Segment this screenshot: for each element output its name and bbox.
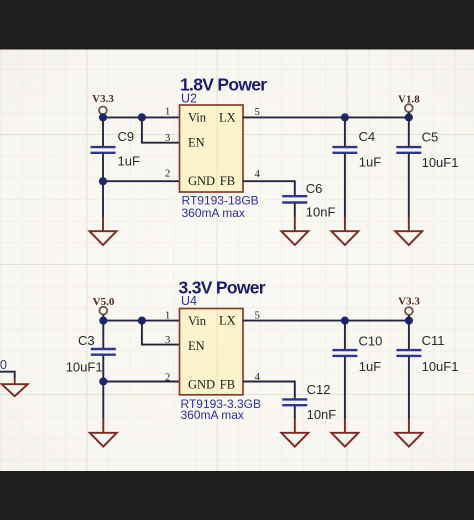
wire EN tap down 2 [142, 321, 180, 345]
wire EN tap down [142, 117, 180, 142]
wire V5.0 to U4 Vin [103, 320, 179, 322]
ground under C9 [90, 217, 117, 245]
wire V3.3 to U2 Vin [103, 116, 180, 118]
ground under C3 [90, 418, 117, 446]
ground under C10 [331, 418, 358, 446]
ground under C5 [395, 217, 422, 245]
capacitor C12 [282, 399, 307, 418]
power port V3.3 [92, 93, 114, 117]
regulator U4 [180, 294, 244, 395]
power port V1.8 [398, 93, 420, 117]
wire left edge stub [0, 372, 15, 378]
ground under C11 [395, 418, 422, 446]
bottom letterbox bar [0, 471, 474, 520]
wire GND row to U2 [103, 180, 180, 182]
junction at V3.3 [99, 113, 107, 121]
power port V5.0 [93, 296, 115, 321]
wire FB to C6 [243, 181, 295, 195]
wire LX to V1.8 [243, 116, 409, 118]
capacitor C5 [396, 117, 421, 217]
capacitor C11 [396, 321, 421, 419]
wire C9 to ground [102, 181, 104, 217]
ground under C4 [331, 217, 358, 245]
junction at C10 [341, 317, 349, 325]
top letterbox bar [0, 0, 474, 50]
capacitor C9 [91, 117, 116, 181]
capacitor C10 [332, 321, 357, 419]
ground under C6 [281, 217, 308, 245]
junction at C4 [341, 113, 349, 121]
power port V3.3 out [398, 296, 420, 321]
capacitor C4 [332, 117, 357, 217]
wire FB to C12 [243, 382, 295, 399]
regulator U2 [180, 92, 244, 193]
junction at EN tap 2 [138, 317, 146, 325]
wire LX to V3.3 [243, 320, 409, 322]
junction at V5.0 [99, 317, 107, 325]
wire C3 to ground [102, 382, 104, 419]
junction at EN tap [138, 113, 146, 121]
junction at C3 bottom [99, 377, 107, 385]
ground under C12 [281, 418, 308, 446]
capacitor C3 [91, 321, 116, 382]
wire GND row to U4 [103, 381, 179, 383]
junction at C9 bottom [99, 177, 107, 185]
ground at left edge [2, 378, 28, 397]
clipped gray dot at left edge [0, 361, 2, 366]
vignette overlay [0, 0, 1, 1]
junction at V3.3 out [405, 317, 413, 325]
capacitor C6 [282, 196, 307, 217]
junction at V1.8 [405, 113, 413, 121]
